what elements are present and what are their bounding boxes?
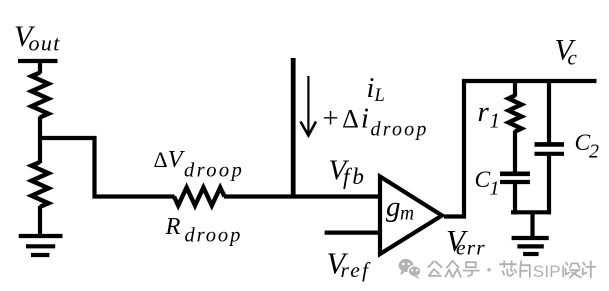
svg-text:out: out <box>29 31 61 56</box>
op-amp U1 gm <box>380 177 442 255</box>
she <box>566 263 581 278</box>
wire R-lower to ground <box>38 206 42 236</box>
svg-text:2: 2 <box>589 141 599 163</box>
ji <box>583 261 595 277</box>
resistor R-lower <box>32 162 49 207</box>
wire r1 to C1 <box>513 131 517 174</box>
svg-text:ΔV: ΔV <box>154 146 186 173</box>
watermark wechat icon <box>399 259 421 279</box>
wire feedback tap <box>38 138 175 197</box>
svg-text:SIPI: SIPI <box>533 262 566 281</box>
ground left <box>19 234 63 238</box>
svg-text:+Δi: +Δi <box>321 103 371 135</box>
capacitor C1 <box>500 172 530 177</box>
svg-text:err: err <box>456 235 486 259</box>
svg-text:m: m <box>400 204 415 225</box>
capacitor C2 <box>535 142 565 147</box>
wire ground stub right <box>530 212 534 237</box>
wire C2 stub <box>547 79 551 144</box>
wire iL vertical <box>291 58 296 197</box>
svg-text:L: L <box>374 86 385 106</box>
svg-text:ref: ref <box>341 258 372 282</box>
middot <box>487 268 490 271</box>
hao <box>464 262 479 276</box>
svg-text:droop: droop <box>184 160 244 182</box>
node Vout terminal bar <box>18 59 58 63</box>
gong <box>429 262 442 276</box>
wire C1 to bottom rail <box>513 182 517 214</box>
wire Verr output riser and Vc rail <box>444 81 597 217</box>
wire Vref input <box>325 231 380 235</box>
svg-text:r: r <box>478 96 490 128</box>
svg-text:droop: droop <box>185 225 243 247</box>
xin <box>500 261 516 276</box>
svg-text:fb: fb <box>343 164 367 189</box>
svg-text:g: g <box>386 191 401 223</box>
svg-text:i: i <box>367 73 375 104</box>
ground right <box>512 236 549 240</box>
arrow iL <box>307 76 309 134</box>
watermark text: hand-drawn CJK strokes + latin <box>429 261 596 278</box>
wire C2 to bottom rail <box>547 154 551 215</box>
pian <box>520 261 530 277</box>
resistor Rdroop <box>174 188 225 206</box>
wire bottom rail <box>511 210 551 214</box>
wire Vout to R1 <box>38 59 42 74</box>
wire R-upper to node <box>38 117 42 164</box>
resistor R-upper <box>32 73 49 118</box>
svg-text:1: 1 <box>490 108 501 132</box>
resistor r1 <box>509 96 522 132</box>
wire r1 stub <box>513 79 517 97</box>
wire Rdroop to op-amp (Vfb net) <box>224 194 381 198</box>
svg-text:R: R <box>165 213 181 240</box>
svg-text:c: c <box>568 45 578 69</box>
zhong <box>445 261 461 277</box>
svg-text:C: C <box>475 167 491 193</box>
svg-text:droop: droop <box>371 119 429 141</box>
svg-text:1: 1 <box>490 177 500 199</box>
